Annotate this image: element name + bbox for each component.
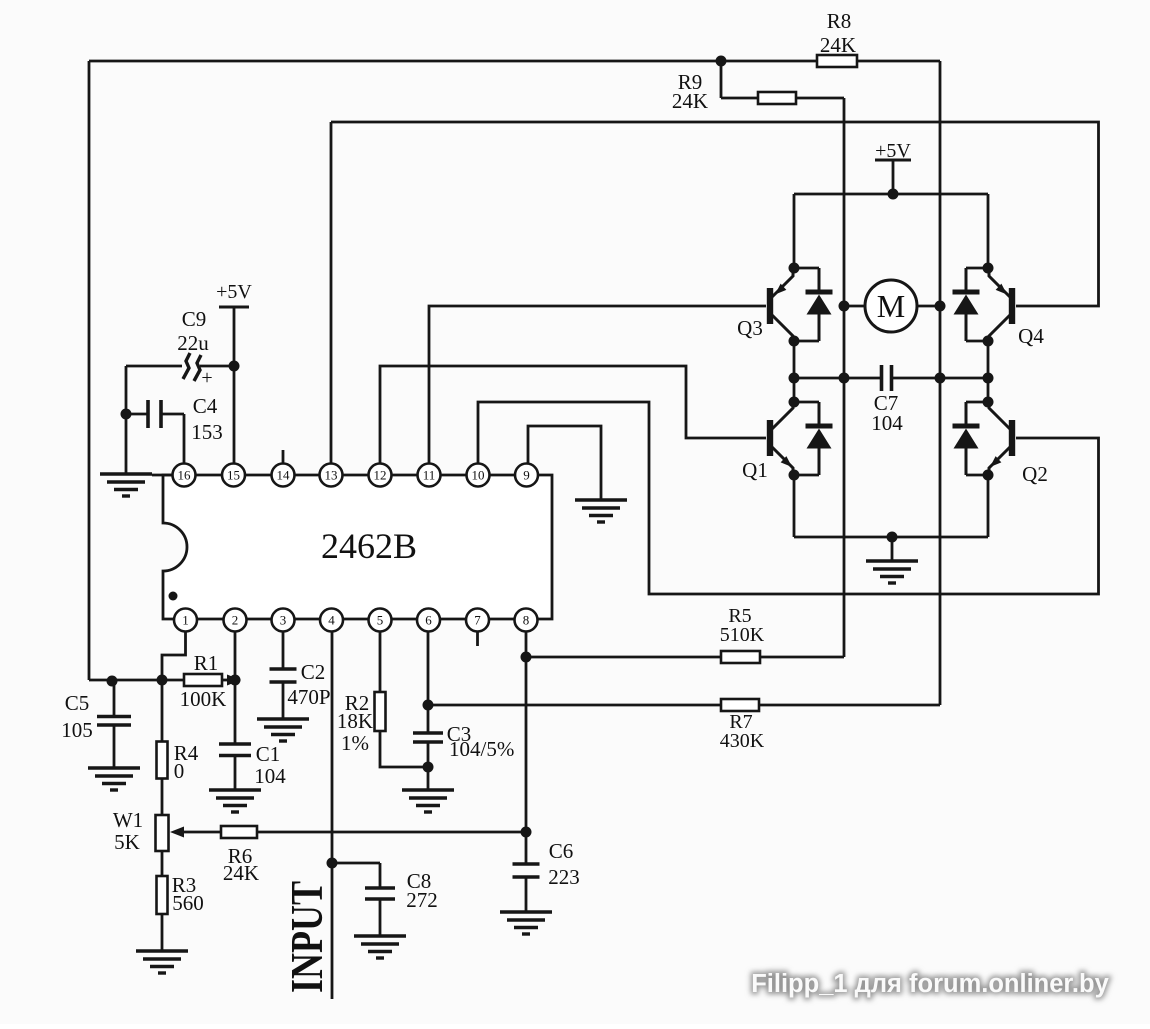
svg-text:5: 5	[377, 613, 384, 628]
wire C4 to pin16	[183, 414, 186, 463]
svg-text:100K: 100K	[180, 687, 227, 711]
node C3/R2	[423, 762, 434, 773]
wire C9 to ground	[125, 366, 128, 474]
wire pin8 column	[525, 631, 528, 832]
wire emitter rail	[794, 536, 988, 539]
wire R7 left lead	[428, 704, 721, 707]
pin 6	[417, 609, 440, 632]
svg-text:5K: 5K	[114, 830, 140, 854]
svg-text:2462B: 2462B	[321, 526, 417, 566]
svg-text:9: 9	[523, 468, 530, 483]
pin 3	[272, 609, 295, 632]
wire Q2 collector	[987, 378, 990, 402]
svg-text:C6: C6	[549, 839, 574, 863]
node R4 top	[157, 675, 168, 686]
svg-text:Q3: Q3	[737, 316, 763, 340]
svg-text:Q4: Q4	[1018, 324, 1044, 348]
wire R6 right lead	[257, 831, 526, 834]
wire Q4 collector riser	[987, 194, 990, 268]
wire R5 left lead	[526, 656, 721, 659]
wire R4 to W1	[161, 778, 164, 815]
wire pin3 to C2	[282, 631, 285, 668]
resistor R8	[817, 55, 857, 67]
wire pin13 to Q4 base	[331, 122, 1099, 306]
resistor R7	[721, 699, 759, 711]
pin 5	[369, 609, 392, 632]
ground C6	[500, 912, 552, 934]
svg-text:10: 10	[472, 468, 485, 483]
wire pin4 INPUT line	[331, 631, 334, 999]
svg-text:153: 153	[191, 420, 223, 444]
svg-text:104/5%: 104/5%	[449, 737, 514, 761]
wire Q2 diode bottom connector	[966, 474, 988, 477]
svg-text:0: 0	[174, 759, 185, 783]
node C7 rail D	[983, 373, 994, 384]
svg-text:W1: W1	[113, 808, 143, 832]
svg-text:12: 12	[374, 468, 387, 483]
wire Q1 diode bottom connector	[794, 474, 819, 477]
wire R8 right	[857, 60, 940, 63]
ground pin9	[575, 500, 627, 522]
wire Q4 diode top connector	[966, 267, 988, 270]
node motor right	[935, 301, 946, 312]
ground C3	[402, 790, 454, 812]
potentiometer W1	[156, 815, 169, 851]
pin 4	[320, 609, 343, 632]
wire ground to pin16	[152, 474, 172, 477]
wire C8 top lead	[332, 862, 380, 865]
pin 15	[222, 464, 245, 487]
resistor R1	[184, 674, 222, 686]
wire R5 right lead	[760, 656, 844, 659]
node Q1 top	[789, 397, 800, 408]
node R1/pin2 arrow	[227, 675, 241, 686]
svg-text:1: 1	[182, 613, 189, 628]
svg-text:C4: C4	[193, 394, 218, 418]
resistor R5	[721, 651, 760, 663]
wire R1 right lead	[222, 679, 228, 682]
wire R7 right lead	[759, 704, 940, 707]
wire bridge top rail	[794, 193, 988, 196]
wire +5V to pin15	[233, 307, 236, 463]
svg-text:C2: C2	[301, 660, 326, 684]
wire C2 to ground	[282, 683, 285, 719]
node C7 rail B	[839, 373, 850, 384]
capacitor C5	[97, 717, 131, 726]
resistor R2	[375, 692, 386, 731]
pin 11	[418, 464, 441, 487]
capacitor C2	[270, 669, 297, 682]
watermark	[751, 970, 1109, 998]
node C5 tap	[107, 676, 118, 687]
svg-text:14: 14	[277, 468, 291, 483]
wire pin7 stub	[476, 631, 479, 646]
node C7 rail A	[789, 373, 800, 384]
svg-text:4: 4	[328, 613, 335, 628]
wire motor left lead	[844, 305, 865, 308]
op-amp U1 2462B body	[163, 475, 552, 619]
wire Q2 diode top connector	[966, 401, 988, 404]
wire R4 top lead	[161, 680, 164, 742]
svg-text:C9: C9	[182, 307, 207, 331]
svg-text:Q2: Q2	[1022, 462, 1048, 486]
wire C6 to ground	[525, 878, 528, 912]
wire C6 stem	[525, 832, 528, 863]
svg-text:C5: C5	[65, 691, 90, 715]
pin 13	[320, 464, 343, 487]
wire	[794, 267, 819, 270]
pin 9	[515, 464, 538, 487]
wire pin14 stub	[282, 450, 285, 463]
node pin6/R7	[423, 700, 434, 711]
svg-text:470P: 470P	[287, 685, 330, 709]
node pin8/R5	[521, 652, 532, 663]
ground C5	[88, 768, 140, 790]
ground C9/C4	[100, 474, 152, 496]
motor M	[865, 280, 917, 332]
wire Q3 diode bottom connector	[794, 340, 819, 343]
wire Q1 emitter drop	[793, 475, 796, 537]
wire Q3 collector riser	[793, 194, 796, 268]
wire emitter ground stem	[891, 537, 894, 561]
svg-text:8: 8	[523, 613, 530, 628]
resistor R3	[157, 876, 168, 914]
svg-text:272: 272	[406, 888, 438, 912]
wire C7 rail left	[794, 377, 881, 380]
node emitter rail center	[887, 532, 898, 543]
node C7 rail C	[935, 373, 946, 384]
wire pin11 to Q3 base	[429, 306, 766, 463]
pin 10	[467, 464, 490, 487]
node R8/R9 junction	[716, 56, 727, 67]
node pin1 mark	[169, 592, 178, 601]
wire row680 left	[89, 679, 184, 682]
pin 16	[173, 464, 196, 487]
capacitor C9 (22u)	[183, 353, 201, 381]
svg-text:1%: 1%	[341, 731, 369, 755]
node C9/+5V	[229, 361, 240, 372]
node R6/C6	[521, 827, 532, 838]
node INPUT	[327, 858, 338, 869]
node Q2 top	[983, 397, 994, 408]
ground C2	[257, 719, 309, 741]
ground R3	[136, 951, 188, 973]
wire Q2 emitter drop	[987, 475, 990, 537]
wire C9 left lead	[126, 365, 182, 368]
wire top rail to R8	[89, 60, 817, 63]
svg-text:223: 223	[548, 865, 580, 889]
diode D4	[953, 268, 980, 341]
diode D3	[806, 268, 833, 341]
svg-text:15: 15	[227, 468, 240, 483]
wire pin2 to C1	[234, 631, 237, 743]
capacitor C7	[882, 365, 892, 391]
diode D2	[953, 402, 980, 475]
wire pin1 jog	[162, 631, 186, 680]
wire C8 drop	[379, 863, 382, 887]
pin 7	[466, 609, 489, 632]
svg-text:2: 2	[232, 613, 239, 628]
wire motor right lead	[917, 305, 940, 308]
wire R3 to ground	[161, 914, 164, 951]
wire C8 to ground	[379, 900, 382, 936]
wire C5 stem bottom	[113, 725, 116, 768]
pin 14	[272, 464, 295, 487]
resistor R4	[157, 742, 168, 779]
svg-text:R8: R8	[827, 9, 852, 33]
wire R6 left lead	[182, 831, 221, 834]
wire W1 to R3	[161, 851, 164, 876]
node Q1 bottom	[789, 470, 800, 481]
wire pin10 to Q2 base	[478, 402, 1099, 594]
wire pin9 to ground	[528, 426, 601, 500]
svg-text:R1: R1	[194, 651, 219, 675]
capacitor C4	[148, 400, 161, 428]
ground C1	[209, 790, 261, 812]
wire pin13 riser	[330, 122, 333, 463]
wire C5 stem top	[113, 680, 116, 716]
svg-text:M: M	[877, 288, 905, 324]
resistor R6	[221, 826, 257, 838]
wire pin5 to R2	[379, 631, 382, 692]
pin 12	[369, 464, 392, 487]
transistor Q3	[767, 268, 793, 341]
svg-text:+5V: +5V	[216, 281, 252, 303]
wire vertical x844 R9-to-R5	[843, 98, 846, 657]
svg-text:Filipp_1 для forum.onliner.by: Filipp_1 для forum.onliner.by	[751, 970, 1109, 998]
wire +5V left bar	[219, 306, 249, 309]
capacitor C3	[413, 733, 443, 742]
capacitor C1	[219, 744, 251, 756]
wire C4 right lead	[162, 413, 184, 416]
wire C7 rail right	[892, 377, 988, 380]
node Q4 top	[983, 263, 994, 274]
wire C3 to ground	[427, 743, 430, 790]
svg-text:24K: 24K	[672, 89, 708, 113]
node Q4 bottom	[983, 336, 994, 347]
svg-text:430K: 430K	[720, 730, 765, 752]
wire C9 right lead	[200, 365, 234, 368]
svg-text:16: 16	[178, 468, 192, 483]
diode D1	[806, 402, 833, 475]
wire R9 left lead	[721, 97, 758, 100]
wire Q1 diode top connector	[794, 401, 819, 404]
svg-text:24K: 24K	[223, 861, 259, 885]
svg-text:7: 7	[474, 613, 481, 628]
wire Q3 emitter to C7 rail	[793, 341, 796, 378]
capacitor C6	[513, 864, 540, 877]
svg-text:22u: 22u	[177, 331, 209, 355]
wire Q1 collector	[793, 378, 796, 402]
svg-text:C1: C1	[256, 742, 281, 766]
svg-text:24K: 24K	[820, 33, 856, 57]
wire C1 to ground	[234, 756, 237, 790]
wire Q4 diode bottom connector	[966, 340, 988, 343]
svg-text:11: 11	[423, 468, 436, 483]
node Q3 bottom	[789, 336, 800, 347]
svg-text:+: +	[201, 367, 212, 389]
svg-text:Q1: Q1	[742, 458, 768, 482]
wire +5V bar	[875, 159, 911, 162]
wire left frame vertical	[88, 61, 91, 680]
svg-text:560: 560	[172, 891, 204, 915]
wire R9 right lead	[796, 97, 844, 100]
resistor R9	[758, 92, 796, 104]
node Q3 top	[789, 263, 800, 274]
wire pin6 to C3	[427, 631, 430, 732]
node pin2/R1	[230, 675, 241, 686]
svg-text:104: 104	[254, 764, 286, 788]
ground bridge	[866, 561, 918, 583]
transistor Q1	[767, 400, 793, 473]
node Q2 bottom	[983, 470, 994, 481]
svg-text:105: 105	[61, 718, 93, 742]
wire Q4 emitter to C7 rail	[987, 341, 990, 378]
svg-text:13: 13	[325, 468, 338, 483]
ground C8	[354, 936, 406, 958]
pin 2	[224, 609, 247, 632]
node motor left	[839, 301, 850, 312]
wire +5V stem	[892, 160, 895, 194]
pin 1	[174, 609, 197, 632]
svg-text:INPUT: INPUT	[281, 881, 332, 993]
node +5V rail	[888, 189, 899, 200]
wire pin12 to Q1 base	[380, 366, 766, 463]
wire vertical x940 R8-to-R7	[939, 61, 942, 705]
wire R9 drop	[720, 61, 723, 98]
wire R2 to C3 bottom	[380, 731, 428, 767]
svg-text:6: 6	[425, 613, 432, 628]
wire C4 left lead	[126, 413, 147, 416]
svg-text:104: 104	[871, 411, 903, 435]
node C4 left	[121, 409, 132, 420]
transistor Q4	[989, 268, 1015, 341]
node W1 wiper arrow	[170, 827, 184, 838]
capacitor C8	[365, 888, 395, 899]
svg-text:18K: 18K	[337, 709, 373, 733]
transistor Q2	[989, 400, 1015, 473]
svg-text:510K: 510K	[720, 624, 765, 646]
pin 8	[515, 609, 538, 632]
svg-text:3: 3	[280, 613, 287, 628]
